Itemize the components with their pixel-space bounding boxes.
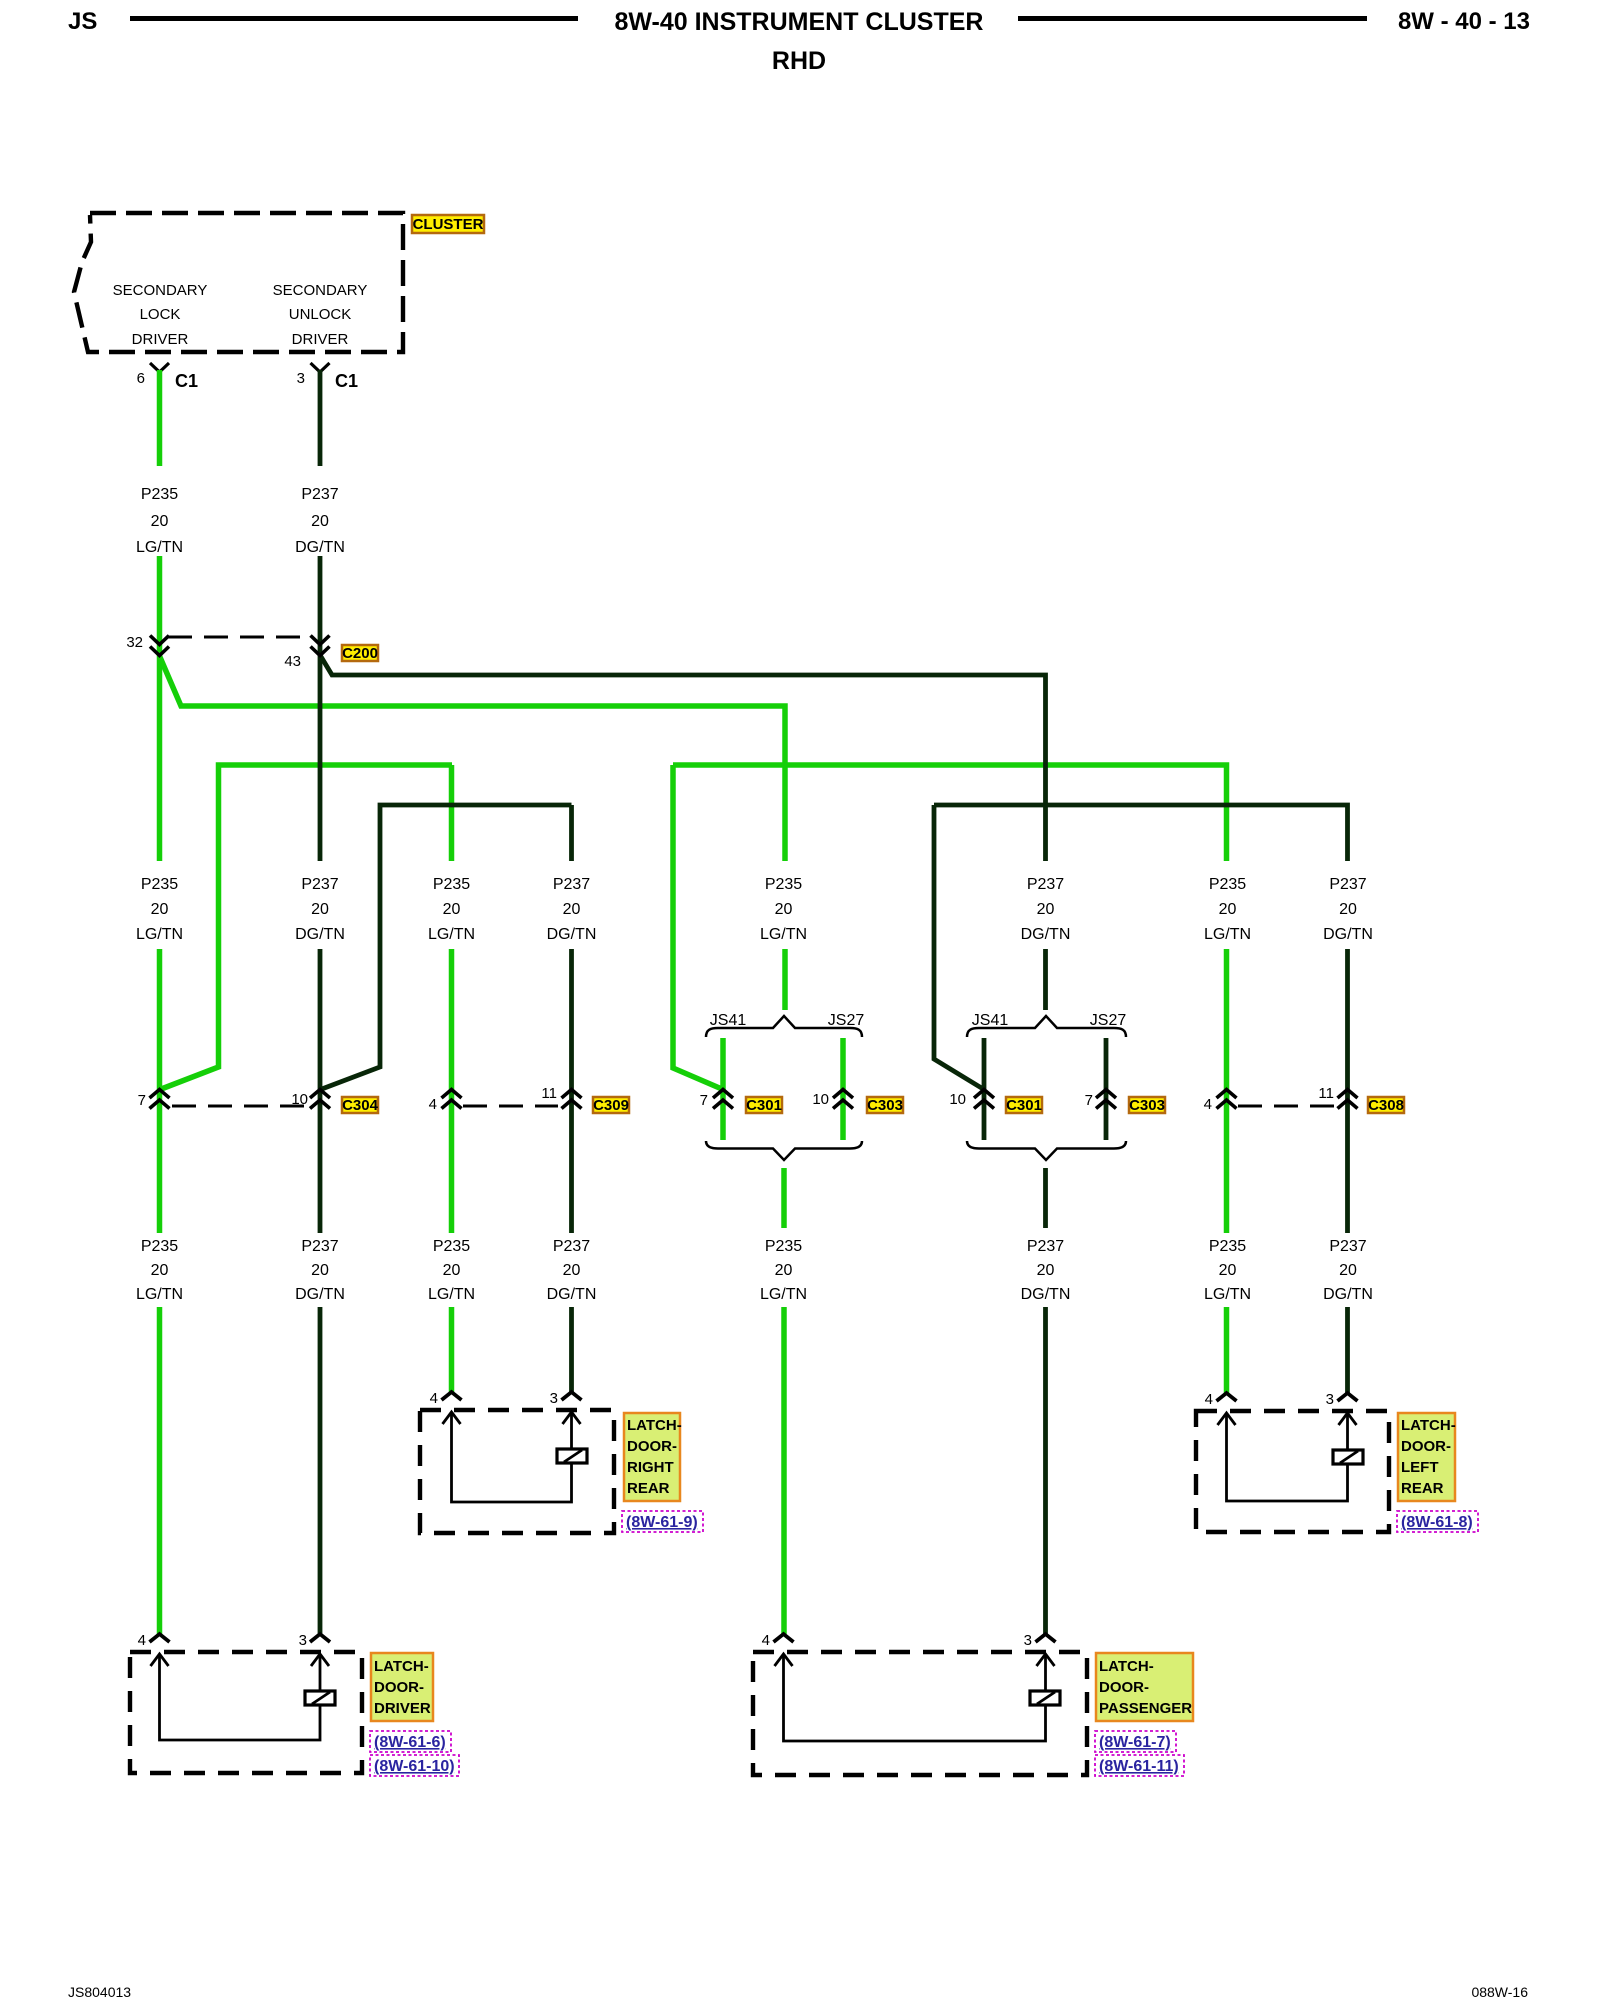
- svg-text:P235: P235: [433, 1238, 470, 1255]
- svg-text:20: 20: [1037, 901, 1055, 918]
- svg-text:PASSENGER: PASSENGER: [1099, 1700, 1192, 1717]
- svg-text:C308: C308: [1368, 1097, 1404, 1114]
- svg-text:10: 10: [812, 1091, 829, 1108]
- svg-text:LG/TN: LG/TN: [136, 926, 183, 943]
- svg-text:DG/TN: DG/TN: [547, 926, 597, 943]
- svg-text:P237: P237: [553, 1238, 590, 1255]
- svg-text:4: 4: [429, 1096, 437, 1113]
- svg-text:LG/TN: LG/TN: [136, 539, 183, 556]
- svg-text:10: 10: [291, 1091, 308, 1108]
- svg-text:C303: C303: [1129, 1097, 1165, 1114]
- svg-text:(8W-61-8): (8W-61-8): [1401, 1514, 1473, 1531]
- svg-text:P235: P235: [433, 876, 470, 893]
- svg-text:LG/TN: LG/TN: [1204, 1286, 1251, 1303]
- svg-text:DOOR-: DOOR-: [627, 1438, 677, 1455]
- svg-text:20: 20: [151, 1262, 169, 1279]
- svg-text:JS: JS: [68, 8, 97, 35]
- svg-text:P235: P235: [1209, 876, 1246, 893]
- svg-text:UNLOCK: UNLOCK: [289, 306, 352, 323]
- svg-text:20: 20: [311, 1262, 329, 1279]
- svg-text:20: 20: [1339, 901, 1357, 918]
- svg-text:6: 6: [137, 370, 145, 387]
- svg-text:DOOR-: DOOR-: [1099, 1679, 1149, 1696]
- svg-text:20: 20: [775, 901, 793, 918]
- svg-text:C1: C1: [335, 371, 358, 391]
- svg-text:P237: P237: [301, 876, 338, 893]
- svg-text:SECONDARY: SECONDARY: [273, 282, 368, 299]
- svg-text:20: 20: [151, 901, 169, 918]
- svg-text:11: 11: [1318, 1085, 1334, 1102]
- svg-text:20: 20: [311, 513, 329, 530]
- svg-text:P237: P237: [553, 876, 590, 893]
- svg-text:C301: C301: [1006, 1097, 1042, 1114]
- svg-text:20: 20: [1037, 1262, 1055, 1279]
- svg-text:20: 20: [443, 901, 461, 918]
- svg-text:4: 4: [430, 1390, 438, 1407]
- svg-text:DRIVER: DRIVER: [374, 1700, 431, 1717]
- svg-text:20: 20: [1339, 1262, 1357, 1279]
- svg-text:7: 7: [138, 1092, 146, 1109]
- svg-text:JS27: JS27: [828, 1012, 865, 1029]
- svg-text:43: 43: [284, 653, 301, 670]
- svg-text:LG/TN: LG/TN: [1204, 926, 1251, 943]
- svg-text:JS804013: JS804013: [68, 1984, 131, 2000]
- svg-text:CLUSTER: CLUSTER: [413, 216, 484, 233]
- svg-text:4: 4: [762, 1632, 770, 1649]
- svg-text:P237: P237: [1027, 876, 1064, 893]
- svg-text:20: 20: [151, 513, 169, 530]
- svg-text:C309: C309: [593, 1097, 629, 1114]
- svg-text:P237: P237: [1329, 1238, 1366, 1255]
- svg-text:3: 3: [1326, 1391, 1334, 1408]
- svg-text:RHD: RHD: [772, 47, 826, 75]
- svg-text:P235: P235: [141, 1238, 178, 1255]
- svg-text:088W-16: 088W-16: [1471, 1984, 1528, 2000]
- svg-text:P237: P237: [1027, 1238, 1064, 1255]
- svg-text:20: 20: [775, 1262, 793, 1279]
- svg-text:C304: C304: [342, 1097, 379, 1114]
- svg-text:DRIVER: DRIVER: [292, 331, 349, 348]
- svg-text:8W-40 INSTRUMENT CLUSTER: 8W-40 INSTRUMENT CLUSTER: [615, 8, 984, 36]
- svg-text:REAR: REAR: [627, 1480, 670, 1497]
- svg-text:P235: P235: [765, 876, 802, 893]
- svg-text:LOCK: LOCK: [140, 306, 181, 323]
- svg-text:P237: P237: [301, 1238, 338, 1255]
- svg-text:C1: C1: [175, 371, 198, 391]
- svg-text:20: 20: [1219, 901, 1237, 918]
- svg-text:C301: C301: [746, 1097, 782, 1114]
- svg-text:RIGHT: RIGHT: [627, 1459, 674, 1476]
- svg-text:32: 32: [126, 634, 143, 651]
- svg-text:DG/TN: DG/TN: [1323, 1286, 1373, 1303]
- svg-text:20: 20: [563, 1262, 581, 1279]
- svg-text:3: 3: [550, 1390, 558, 1407]
- svg-text:20: 20: [1219, 1262, 1237, 1279]
- svg-text:P235: P235: [141, 486, 178, 503]
- svg-text:DG/TN: DG/TN: [1021, 1286, 1071, 1303]
- svg-text:P235: P235: [765, 1238, 802, 1255]
- svg-text:LG/TN: LG/TN: [136, 1286, 183, 1303]
- svg-text:LG/TN: LG/TN: [428, 926, 475, 943]
- svg-text:DG/TN: DG/TN: [1323, 926, 1373, 943]
- svg-text:3: 3: [297, 370, 305, 387]
- svg-text:4: 4: [1205, 1391, 1213, 1408]
- svg-text:LG/TN: LG/TN: [760, 926, 807, 943]
- svg-text:DG/TN: DG/TN: [295, 926, 345, 943]
- svg-text:REAR: REAR: [1401, 1480, 1444, 1497]
- svg-text:DG/TN: DG/TN: [1021, 926, 1071, 943]
- svg-text:C200: C200: [342, 645, 378, 662]
- svg-text:LATCH-: LATCH-: [627, 1417, 682, 1434]
- svg-text:JS41: JS41: [710, 1012, 747, 1029]
- svg-text:(8W-61-6): (8W-61-6): [374, 1734, 446, 1751]
- svg-text:(8W-61-7): (8W-61-7): [1099, 1734, 1171, 1751]
- svg-text:(8W-61-10): (8W-61-10): [374, 1758, 455, 1775]
- svg-text:JS27: JS27: [1090, 1012, 1127, 1029]
- svg-text:LG/TN: LG/TN: [428, 1286, 475, 1303]
- svg-text:20: 20: [311, 901, 329, 918]
- svg-text:LEFT: LEFT: [1401, 1459, 1439, 1476]
- svg-text:DOOR-: DOOR-: [1401, 1438, 1451, 1455]
- svg-text:3: 3: [299, 1632, 307, 1649]
- svg-text:P237: P237: [301, 486, 338, 503]
- svg-text:8W - 40 - 13: 8W - 40 - 13: [1398, 8, 1530, 35]
- svg-text:4: 4: [138, 1632, 146, 1649]
- svg-text:(8W-61-9): (8W-61-9): [626, 1514, 698, 1531]
- svg-text:3: 3: [1024, 1632, 1032, 1649]
- svg-text:4: 4: [1204, 1096, 1212, 1113]
- svg-text:LATCH-: LATCH-: [1401, 1417, 1456, 1434]
- svg-text:LATCH-: LATCH-: [1099, 1658, 1154, 1675]
- svg-text:20: 20: [563, 901, 581, 918]
- svg-text:7: 7: [1085, 1092, 1093, 1109]
- svg-text:P235: P235: [141, 876, 178, 893]
- svg-text:(8W-61-11): (8W-61-11): [1099, 1758, 1179, 1775]
- svg-text:DG/TN: DG/TN: [295, 539, 345, 556]
- svg-text:P235: P235: [1209, 1238, 1246, 1255]
- svg-text:P237: P237: [1329, 876, 1366, 893]
- svg-text:DRIVER: DRIVER: [132, 331, 189, 348]
- svg-text:DOOR-: DOOR-: [374, 1679, 424, 1696]
- svg-text:10: 10: [949, 1091, 966, 1108]
- svg-text:SECONDARY: SECONDARY: [113, 282, 208, 299]
- svg-text:C303: C303: [867, 1097, 903, 1114]
- svg-text:LATCH-: LATCH-: [374, 1658, 429, 1675]
- svg-text:7: 7: [700, 1092, 708, 1109]
- svg-text:11: 11: [541, 1085, 557, 1102]
- svg-text:20: 20: [443, 1262, 461, 1279]
- svg-text:JS41: JS41: [972, 1012, 1009, 1029]
- svg-text:DG/TN: DG/TN: [547, 1286, 597, 1303]
- svg-text:DG/TN: DG/TN: [295, 1286, 345, 1303]
- svg-text:LG/TN: LG/TN: [760, 1286, 807, 1303]
